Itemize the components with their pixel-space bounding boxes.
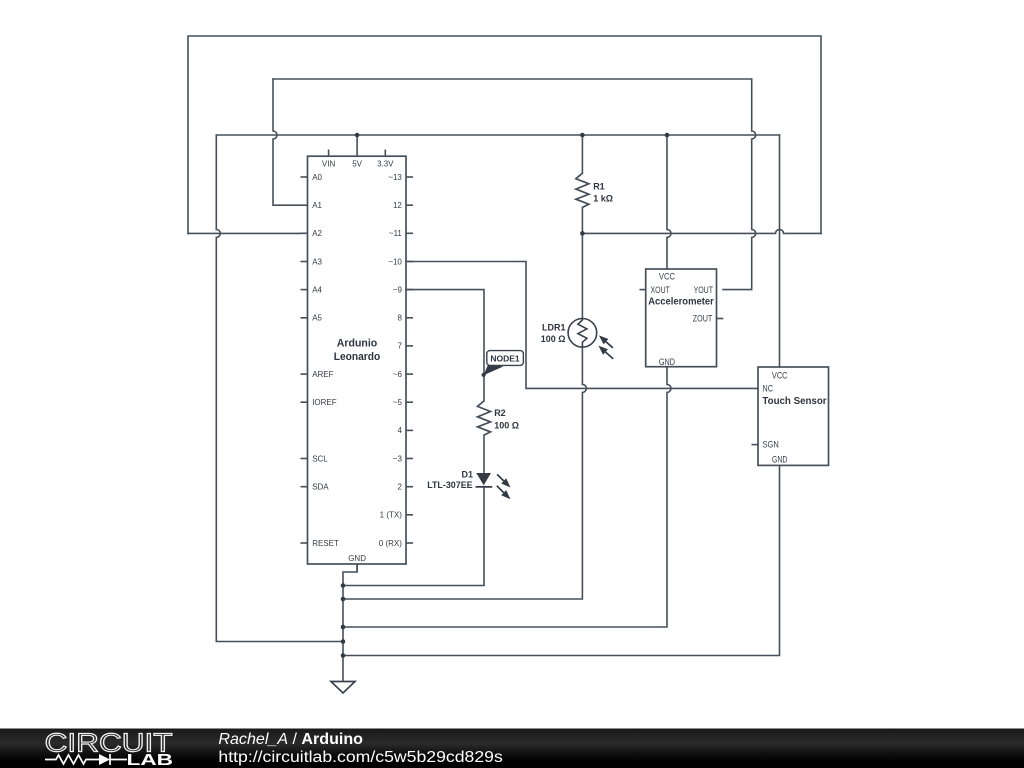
- svg-text:GND: GND: [772, 454, 788, 464]
- wire pin ~10 to touch sensor NC: [406, 262, 758, 389]
- Arduino left pin labels: [312, 173, 339, 548]
- wire outer loop rectangle: [188, 36, 821, 233]
- svg-text:A2: A2: [312, 229, 322, 238]
- svg-text:NODE1: NODE1: [490, 354, 520, 364]
- wire Arduino GND down to ground: [343, 564, 357, 682]
- wire R1 top lead: [581, 135, 583, 173]
- touch sensor pin labels: [763, 371, 788, 465]
- svg-text:http://circuitlab.com/c5w5b29c: http://circuitlab.com/c5w5b29cd829s: [218, 749, 503, 766]
- svg-text:VIN: VIN: [322, 159, 336, 168]
- wire A1 net top horizontal: [273, 78, 752, 80]
- svg-text:A3: A3: [312, 257, 322, 266]
- svg-text:8: 8: [397, 314, 402, 323]
- Arduino top and bottom pin labels: [322, 159, 394, 563]
- wire accelerometer VCC vertical: [667, 135, 671, 269]
- Arduino pin stubs left: [301, 177, 308, 543]
- resistor R2: [478, 401, 491, 435]
- wire touch sensor GND to rail: [343, 466, 780, 656]
- LDR1 value label: [541, 323, 566, 345]
- svg-text:~13: ~13: [388, 173, 402, 182]
- accelerometer U2 box: [646, 269, 717, 367]
- wire R1 bottom lead: [581, 207, 583, 233]
- wire LDR1 bottom to GND rail: [343, 347, 586, 599]
- svg-text:SDA: SDA: [312, 483, 329, 492]
- svg-text:ZOUT: ZOUT: [693, 314, 713, 324]
- svg-text:~10: ~10: [388, 257, 402, 266]
- svg-text:NC: NC: [763, 383, 774, 393]
- svg-text:7: 7: [397, 342, 402, 351]
- svg-text:VCC: VCC: [772, 371, 788, 381]
- svg-text:2: 2: [397, 483, 402, 492]
- svg-text:Rachel_A / Arduino: Rachel_A / Arduino: [218, 731, 363, 748]
- node flag NODE1: [482, 351, 524, 377]
- svg-text:IOREF: IOREF: [312, 398, 337, 407]
- svg-text:Touch Sensor: Touch Sensor: [762, 395, 826, 407]
- wire D1 to GND rail: [343, 487, 484, 586]
- touch sensor U3 box: [758, 367, 829, 465]
- LDR1 light arrows: [598, 335, 613, 359]
- Arduino right pin labels: [379, 173, 403, 548]
- svg-text:4: 4: [397, 426, 402, 435]
- svg-text:~6: ~6: [393, 370, 403, 379]
- svg-text:Accelerometer: Accelerometer: [648, 296, 714, 308]
- wire accelerometer GND to rail: [343, 367, 671, 627]
- Arduino name label Ardunio Leonardo: [334, 338, 381, 364]
- R2 value label: [494, 408, 519, 431]
- accelerometer pin stubs: [640, 290, 724, 319]
- svg-text:12: 12: [393, 201, 402, 210]
- svg-text:LAB: LAB: [127, 752, 174, 768]
- Arduino U1 box: [308, 156, 407, 564]
- svg-text:A4: A4: [312, 285, 322, 294]
- wire A1 net left vertical to A1 pin: [273, 79, 301, 205]
- svg-text:RESET: RESET: [312, 539, 339, 548]
- svg-text:XOUT: XOUT: [651, 285, 671, 295]
- resistor R1: [576, 173, 589, 207]
- svg-text:GND: GND: [348, 554, 366, 563]
- wire 5V left branch down to GND rail junction: [216, 135, 343, 642]
- svg-text:1 kΩ: 1 kΩ: [593, 193, 613, 203]
- wire pin ~9 to R2: [406, 290, 484, 401]
- ground symbol: [331, 682, 355, 694]
- svg-text:1 (TX): 1 (TX): [380, 511, 403, 520]
- svg-text:AREF: AREF: [312, 370, 333, 379]
- svg-text:GND: GND: [659, 357, 676, 367]
- wire R2 to D1: [483, 435, 485, 473]
- svg-text:R1: R1: [593, 182, 605, 192]
- svg-text:100 Ω: 100 Ω: [541, 334, 566, 344]
- svg-text:A0: A0: [312, 173, 322, 182]
- svg-text:~9: ~9: [393, 285, 403, 294]
- svg-text:~3: ~3: [393, 454, 403, 463]
- svg-text:100 Ω: 100 Ω: [494, 421, 519, 431]
- photoresistor LDR1: [568, 319, 597, 348]
- svg-text:SCL: SCL: [312, 454, 328, 463]
- svg-text:VCC: VCC: [659, 272, 676, 282]
- svg-text:Ardunio: Ardunio: [337, 338, 378, 350]
- svg-text:A5: A5: [312, 314, 322, 323]
- R1 value label: [593, 182, 613, 204]
- wire touch sensor VCC vertical: [779, 135, 781, 367]
- Arduino pin stubs top and bottom: [329, 150, 386, 572]
- wire LDR1 top lead: [581, 233, 583, 319]
- svg-text:YOUT: YOUT: [694, 285, 714, 295]
- touch sensor pin stub SGN: [752, 444, 759, 446]
- CircuitLab logo schematic wire with resistor and diode: [45, 754, 127, 765]
- svg-text:0 (RX): 0 (RX): [379, 539, 402, 548]
- footer bar: [0, 729, 1024, 768]
- wire A2 to outer loop left segment: [188, 232, 301, 234]
- svg-text:R2: R2: [494, 408, 506, 418]
- accelerometer pin labels: [651, 272, 714, 368]
- svg-text:5V: 5V: [352, 159, 362, 168]
- svg-text:3.3V: 3.3V: [377, 159, 394, 168]
- wire 5V pin riser: [356, 135, 358, 156]
- D1 light arrows: [497, 474, 511, 499]
- svg-text:SGN: SGN: [763, 440, 779, 450]
- junction dots: [341, 133, 670, 658]
- svg-text:Leonardo: Leonardo: [334, 351, 381, 363]
- LED D1: [476, 473, 493, 487]
- svg-text:D1: D1: [461, 470, 473, 480]
- wire A1 net right vertical to YOUT: [723, 79, 756, 290]
- svg-text:~5: ~5: [393, 398, 403, 407]
- svg-text:A1: A1: [312, 201, 322, 210]
- wire 5V bus horizontal: [216, 134, 779, 136]
- D1 value label: [427, 470, 473, 490]
- Arduino pin stubs right: [406, 177, 413, 543]
- svg-text:LTL-307EE: LTL-307EE: [427, 480, 472, 490]
- svg-text:~11: ~11: [389, 229, 403, 238]
- svg-text:LDR1: LDR1: [542, 323, 566, 333]
- wire outer loop bottom-right segment to R1 junction: [582, 229, 821, 233]
